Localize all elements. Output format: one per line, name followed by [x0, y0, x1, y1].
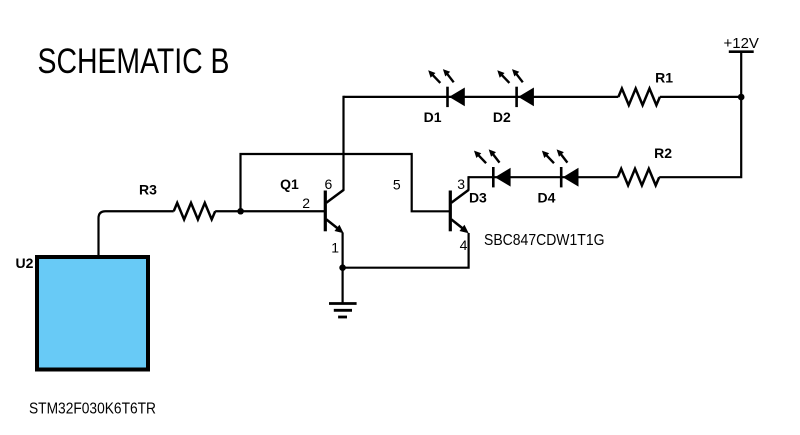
label D2	[493, 109, 511, 125]
wire second LED row (Q2 collector to R2)	[468, 176, 617, 178]
svg-text:SBC847CDW1T1G: SBC847CDW1T1G	[484, 232, 605, 249]
label R2	[654, 145, 672, 161]
junction node at emitters/ground	[339, 264, 346, 271]
label STM32F030K6T6TR	[29, 401, 156, 418]
svg-text:2: 2	[302, 195, 310, 211]
ground symbol	[329, 304, 357, 318]
wire R1 right end to rail junction	[660, 96, 741, 98]
svg-text:1: 1	[331, 240, 339, 256]
resistor R3	[174, 203, 216, 220]
svg-text:STM32F030K6T6TR: STM32F030K6T6TR	[29, 401, 156, 418]
wire +12V rail down to junction	[740, 52, 742, 97]
wire Q2 collector up to second LED row	[467, 176, 469, 190]
LED D4	[542, 149, 579, 187]
wire node A up and over to Q2 base	[241, 154, 450, 211]
wire Q1 collector up to top LED row	[342, 96, 344, 191]
junction node at +12V rail and R1	[738, 94, 745, 101]
transistor Q1	[325, 190, 344, 234]
LED D3	[474, 149, 511, 187]
label U2	[16, 255, 34, 271]
label Q1	[280, 176, 299, 192]
svg-text:R1: R1	[655, 70, 673, 86]
wire +12V rail down to R2 row	[659, 97, 741, 177]
wire top LED row (Q1 collector to R1)	[344, 96, 619, 98]
pin 3 (Q2 collector)	[457, 176, 465, 192]
LED D1	[428, 69, 465, 107]
wire Q1 emitter down to ground junction	[342, 233, 344, 304]
svg-text:D1: D1	[424, 109, 442, 125]
transistor Q2 (in SBC847CDW1T1G)	[450, 190, 469, 234]
label R1	[655, 70, 673, 86]
pin 6 (Q1 collector)	[325, 176, 333, 192]
svg-text:5: 5	[393, 177, 401, 193]
LED D2	[497, 69, 534, 107]
svg-text:3: 3	[457, 176, 465, 192]
svg-text:U2: U2	[16, 255, 34, 271]
svg-text:R3: R3	[139, 181, 157, 197]
power +12V symbol	[723, 35, 758, 52]
pin 5 (Q2 base)	[393, 177, 401, 193]
svg-text:4: 4	[460, 237, 468, 253]
svg-text:SCHEMATIC B: SCHEMATIC B	[38, 42, 230, 81]
label D4	[538, 190, 556, 206]
resistor R2	[618, 169, 660, 186]
pin 4 (Q2 emitter)	[460, 237, 468, 253]
pin 2 (Q1 base)	[302, 195, 310, 211]
svg-text:D2: D2	[493, 109, 511, 125]
label D3	[469, 190, 487, 206]
label R3	[139, 181, 157, 197]
wire node A to Q1 base	[241, 210, 325, 212]
svg-text:6: 6	[325, 176, 333, 192]
resistor R1	[618, 89, 660, 106]
node A junction (R3 / Q1 base / Q2 base)	[237, 208, 244, 215]
svg-text:D3: D3	[469, 190, 487, 206]
svg-text:+12V: +12V	[723, 35, 758, 52]
label D1	[424, 109, 442, 125]
label SBC847CDW1T1G	[484, 232, 605, 249]
wire U2 up to R3 (rounded corner)	[99, 211, 174, 255]
block U2 (STM32 MCU)	[37, 257, 148, 370]
title SCHEMATIC B	[38, 42, 230, 81]
svg-text:Q1: Q1	[280, 176, 299, 192]
svg-text:D4: D4	[538, 190, 556, 206]
pin 1 (Q1 emitter)	[331, 240, 339, 256]
wire emitters bottom row (Q1 emitter to Q2 emitter)	[343, 233, 469, 268]
svg-text:R2: R2	[654, 145, 672, 161]
wire R3 right end to node A	[215, 210, 240, 212]
